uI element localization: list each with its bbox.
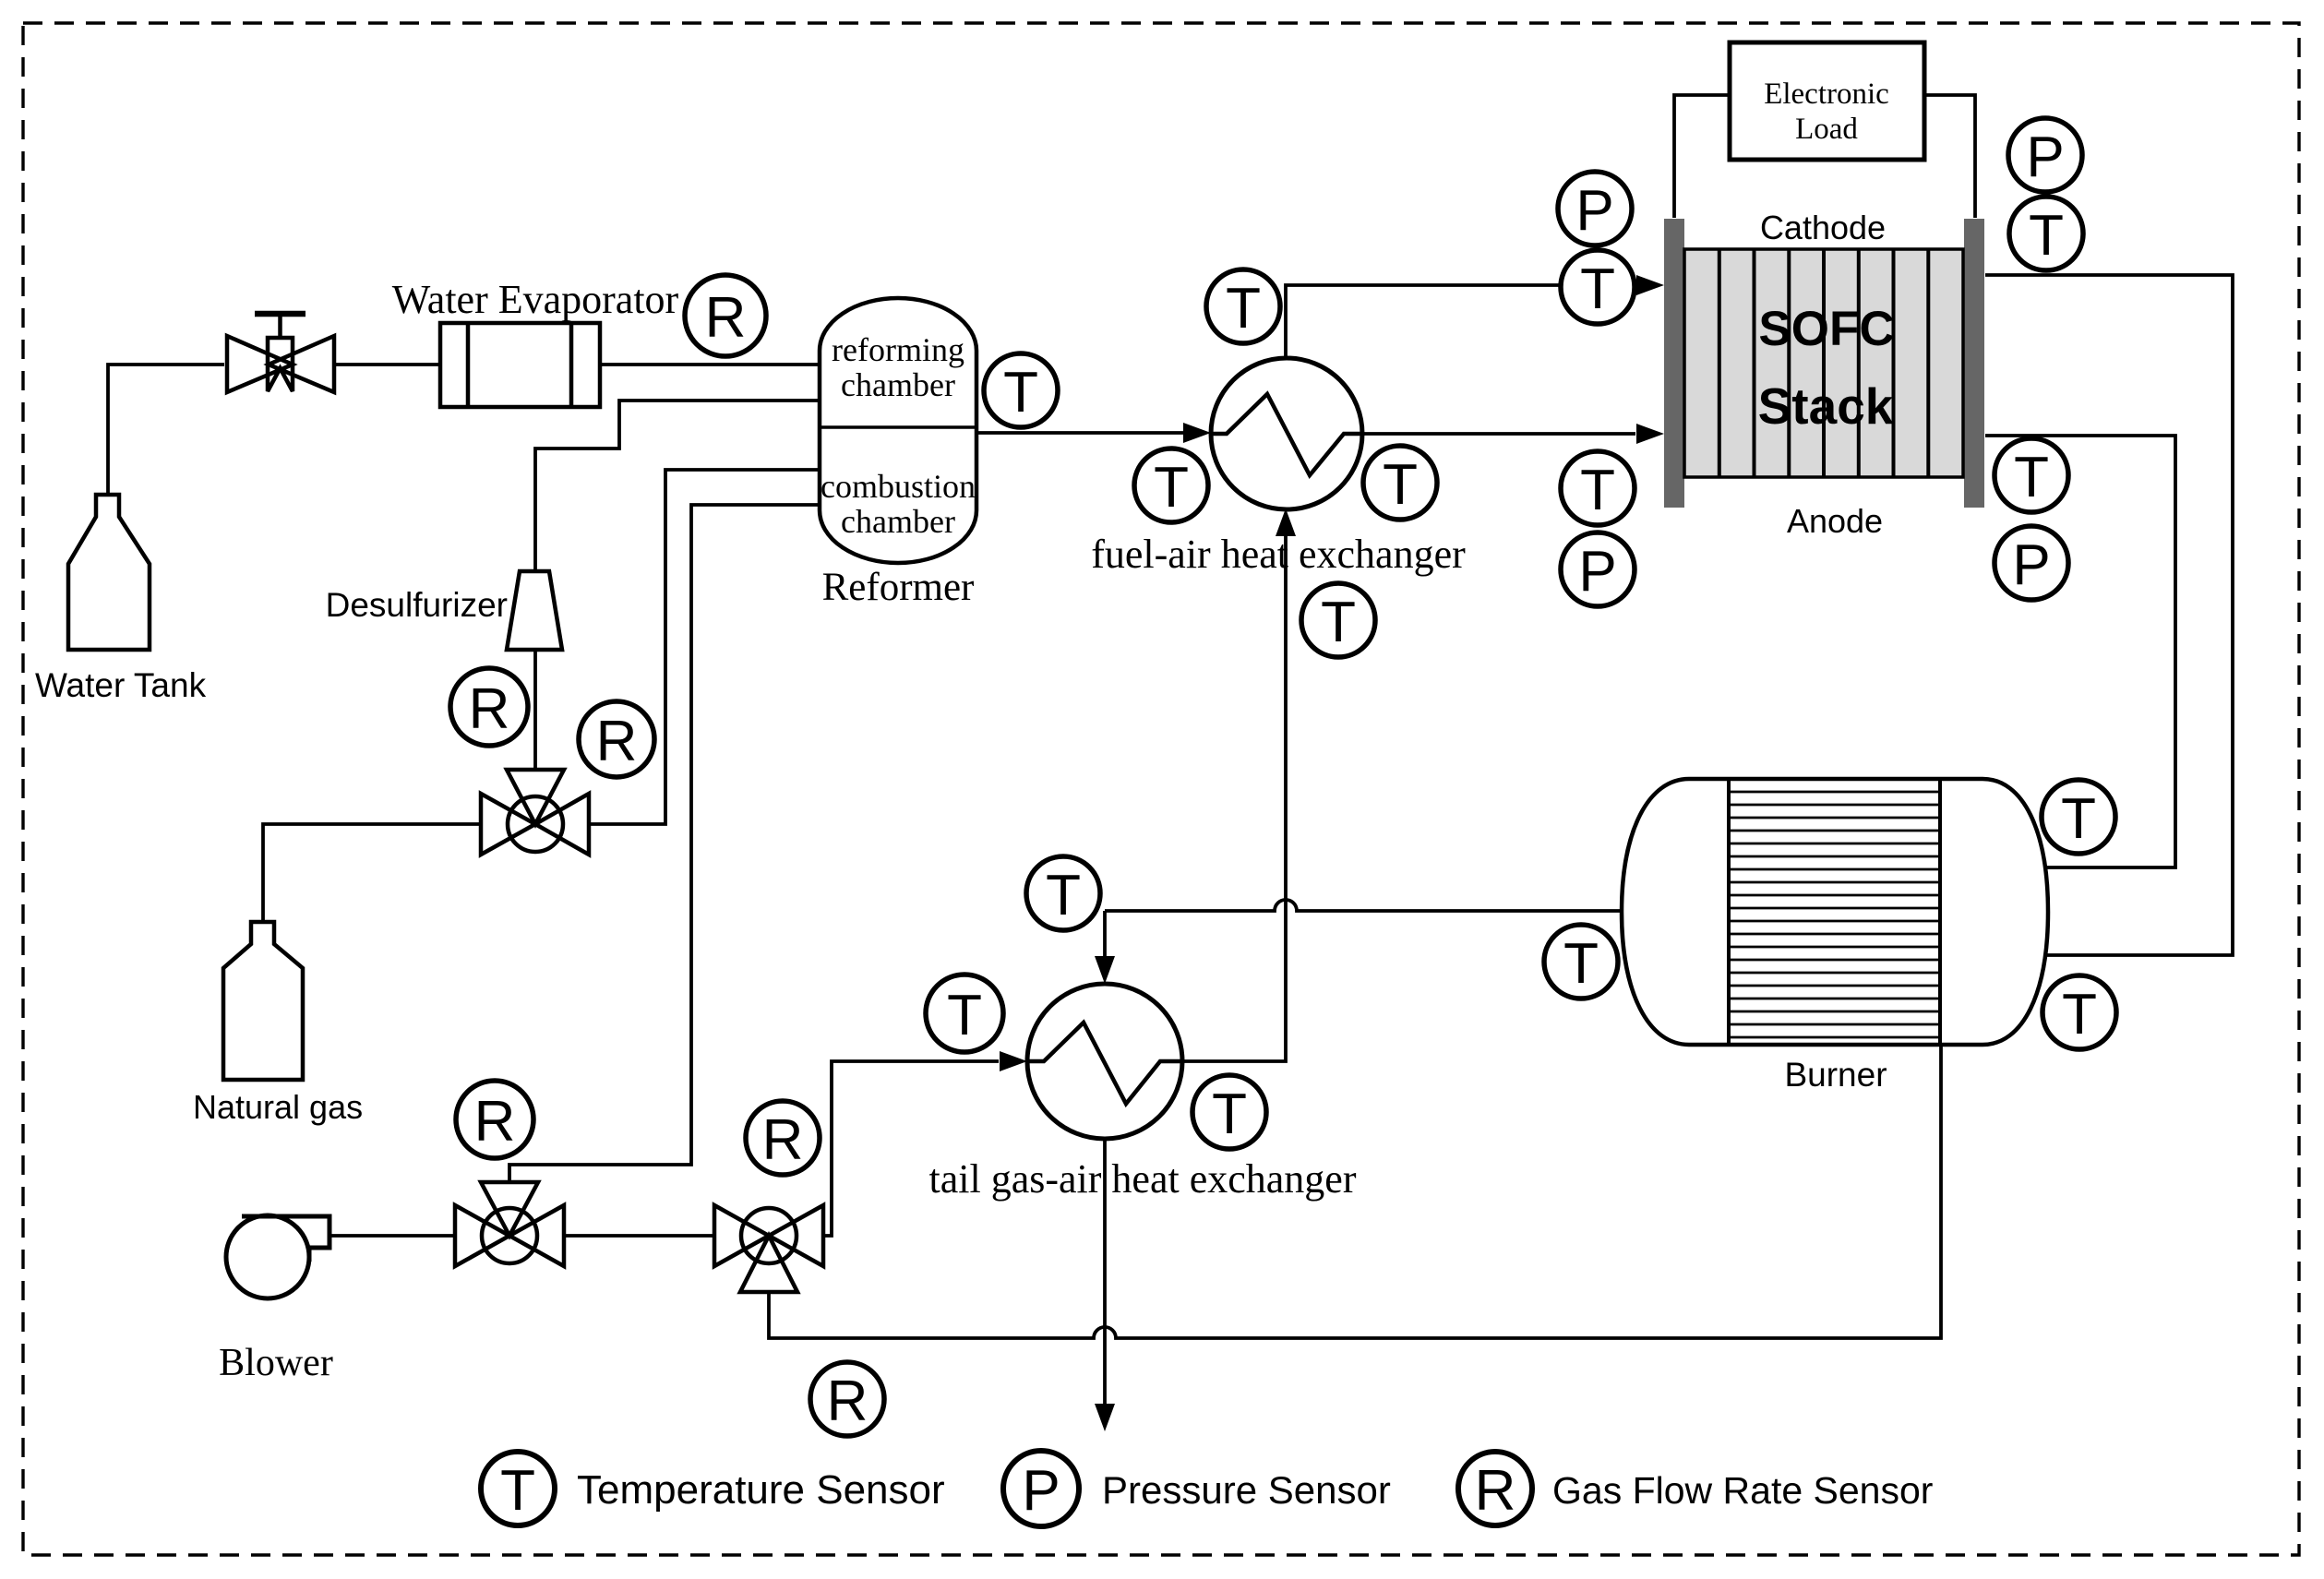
wire water tank to valve V1 — [108, 365, 224, 495]
svg-text:chamber: chamber — [841, 366, 955, 403]
arrow into SOFC cathode — [1636, 275, 1664, 295]
gas flow rate sensor R4 reforming air — [456, 1081, 533, 1158]
arrow up into fuel-air heat exchanger bottom — [1276, 508, 1296, 536]
temperature sensor T1 reformer outlet — [984, 353, 1058, 427]
temperature sensor T5 fuel-air HX air inlet — [1301, 583, 1375, 657]
wire tail gas-air heat exchanger exhaust outlet — [1103, 1139, 1107, 1404]
temperature sensor T12 tail-gas HX air outlet — [1192, 1075, 1266, 1149]
wire electronic load to SOFC left terminal — [1674, 95, 1730, 218]
wire blower to air valve V3 — [329, 1234, 455, 1238]
SOFC stack left terminal bar — [1664, 219, 1684, 508]
temperature sensor T13 burner outlet — [1544, 925, 1618, 999]
svg-text:T: T — [1212, 1083, 1247, 1146]
svg-text:R: R — [474, 1090, 516, 1154]
blower — [226, 1215, 329, 1298]
temperature sensor T14 burner anode-gas inlet — [2042, 780, 2115, 854]
svg-text:P: P — [2026, 126, 2064, 189]
burner tube bundle hatch — [1729, 792, 1940, 1037]
valve V3 air three-way valve — [455, 1182, 564, 1266]
svg-text:R: R — [596, 710, 638, 773]
wire water evaporator to reformer reforming chamber — [600, 363, 820, 366]
svg-text:T: T — [1226, 277, 1261, 341]
svg-text:T: T — [1580, 257, 1615, 321]
legend pressure sensor symbol — [1003, 1451, 1079, 1526]
svg-text:T: T — [1154, 456, 1189, 520]
reformer vessel — [820, 298, 976, 563]
wire NG valve V2 to desulfurizer — [533, 649, 537, 770]
pressure sensor P3 cathode outlet — [2008, 118, 2082, 192]
gas flow rate sensor R6 bypass air — [810, 1362, 884, 1436]
svg-text:Cathode: Cathode — [1760, 209, 1886, 246]
gas flow rate sensor R5 heat exchanger air — [746, 1101, 820, 1175]
svg-text:R: R — [1475, 1459, 1516, 1523]
svg-text:Temperature Sensor: Temperature Sensor — [577, 1467, 945, 1513]
svg-text:fuel-air heat exchanger: fuel-air heat exchanger — [1091, 532, 1466, 577]
svg-text:Blower: Blower — [219, 1342, 333, 1384]
temperature sensor T10 tail-gas HX hot inlet — [1026, 856, 1100, 930]
fuel-air heat exchanger — [1211, 358, 1362, 509]
svg-text:T: T — [2062, 983, 2097, 1047]
arrow into fuel-air heat exchanger left — [1183, 423, 1211, 443]
wire tail gas-air heat exchanger to fuel-air heat exchanger bottom — [1182, 536, 1286, 1061]
legend gas flow rate sensor symbol — [1458, 1452, 1532, 1525]
valve V1 water feed valve — [227, 314, 334, 392]
wire valve V1 to water evaporator — [334, 363, 440, 366]
legend temperature sensor symbol — [481, 1452, 555, 1525]
svg-text:T: T — [1046, 864, 1081, 927]
temperature sensor T7 anode inlet — [1561, 451, 1635, 525]
svg-text:T: T — [2061, 787, 2096, 851]
SOFC stack cell plates — [1719, 249, 1929, 477]
wire valve V4 bypass air to burner bottom (hops over exhaust line) — [769, 1046, 1941, 1338]
valve V2 natural gas three-way valve — [481, 770, 589, 855]
temperature sensor T6 cathode inlet — [1561, 250, 1635, 324]
temperature sensor T4 fuel-air HX fuel outlet — [1363, 446, 1437, 520]
wire SOFC anode outlet to burner — [1985, 436, 2175, 867]
svg-text:reforming: reforming — [832, 331, 964, 368]
burner vessel — [1622, 779, 2048, 1045]
wire fuel-air heat exchanger top to SOFC cathode inlet — [1286, 285, 1635, 359]
svg-text:T: T — [947, 984, 982, 1047]
svg-text:P: P — [1578, 540, 1616, 604]
wire reformer outlet to fuel-air heat exchanger — [976, 431, 1183, 435]
svg-text:chamber: chamber — [841, 503, 955, 540]
arrow down into tail gas-air heat exchanger top — [1095, 956, 1115, 984]
svg-text:P: P — [1575, 179, 1613, 243]
temperature sensor T3 fuel-air HX fuel inlet — [1134, 449, 1208, 522]
svg-text:R: R — [469, 677, 510, 741]
svg-text:Water Evaporator: Water Evaporator — [392, 277, 679, 322]
arrow exhaust outlet down — [1095, 1404, 1115, 1431]
svg-text:Stack: Stack — [1758, 377, 1894, 435]
arrow into SOFC anode — [1636, 424, 1664, 444]
wire valve V4 to tail gas-air heat exchanger (air side inlet) — [821, 1061, 999, 1236]
svg-text:Load: Load — [1795, 113, 1858, 146]
reformer chamber divider — [820, 425, 976, 429]
wire desulfurizer to reformer reforming chamber — [535, 401, 820, 572]
gas flow rate sensor R3 combustion gas — [579, 701, 654, 777]
tail gas-air heat exchanger — [1027, 984, 1182, 1139]
temperature sensor T9 anode outlet — [1995, 438, 2068, 512]
svg-text:T: T — [2014, 446, 2049, 509]
svg-text:Natural gas: Natural gas — [193, 1088, 363, 1126]
svg-text:Desulfurizer: Desulfurizer — [326, 586, 508, 624]
valve V4 tail-gas three-way valve — [714, 1205, 823, 1292]
svg-text:R: R — [827, 1370, 869, 1433]
pressure sensor P4 anode outlet — [1995, 526, 2068, 600]
svg-text:P: P — [2012, 533, 2050, 597]
wire air valve V3 to tail-gas valve V4 — [564, 1234, 714, 1238]
svg-text:Electronic: Electronic — [1764, 78, 1889, 111]
svg-text:Pressure Sensor: Pressure Sensor — [1102, 1468, 1391, 1512]
svg-text:T: T — [2029, 204, 2064, 268]
wire SOFC cathode outlet to burner — [1985, 275, 2233, 955]
temperature sensor T2 fuel-air HX air outlet — [1206, 269, 1280, 343]
svg-text:T: T — [1563, 932, 1599, 996]
svg-text:T: T — [500, 1459, 535, 1523]
svg-text:R: R — [705, 286, 747, 350]
svg-text:P: P — [1022, 1459, 1060, 1523]
wire fuel-air heat exchanger right to SOFC anode inlet — [1362, 432, 1635, 436]
gas flow rate sensor R1 water feed — [685, 275, 766, 356]
svg-text:Reformer: Reformer — [822, 566, 975, 609]
wire burner outlet to tail gas-air heat exchanger top (hops over air line) — [1105, 900, 1623, 956]
water evaporator — [440, 323, 600, 407]
temperature sensor T15 burner air inlet — [2042, 975, 2116, 1049]
svg-text:T: T — [1580, 459, 1615, 522]
water tank — [68, 495, 150, 650]
electronic load box — [1730, 42, 1924, 160]
temperature sensor T8 cathode outlet — [2009, 197, 2083, 270]
wire valve V2 to reformer combustion chamber — [589, 470, 820, 824]
temperature sensor T11 tail-gas HX air inlet — [926, 975, 1003, 1052]
wire air valve V3 to reformer combustion chamber — [509, 505, 820, 1183]
arrow into tail gas-air heat exchanger left — [1000, 1051, 1027, 1071]
svg-text:T: T — [1383, 453, 1418, 517]
svg-text:Burner: Burner — [1784, 1056, 1887, 1094]
SOFC stack body — [1684, 249, 1963, 477]
svg-text:Anode: Anode — [1787, 502, 1883, 540]
svg-text:Water Tank: Water Tank — [35, 666, 207, 704]
svg-text:combustion: combustion — [821, 468, 976, 505]
gas flow rate sensor R2 desulfurized gas — [450, 668, 528, 746]
svg-text:T: T — [1003, 361, 1038, 425]
svg-text:tail gas-air heat exchanger: tail gas-air heat exchanger — [929, 1156, 1357, 1202]
SOFC stack right terminal bar — [1964, 219, 1984, 508]
pressure sensor P2 anode inlet — [1561, 532, 1635, 606]
svg-text:Gas Flow Rate Sensor: Gas Flow Rate Sensor — [1552, 1469, 1933, 1512]
desulfurizer — [507, 571, 562, 650]
burner tube bundle boundary lines — [1729, 779, 1940, 1045]
wire electronic load to SOFC right terminal — [1923, 95, 1975, 218]
pressure sensor P1 cathode inlet — [1558, 172, 1632, 245]
natural gas bottle — [223, 922, 303, 1080]
wire natural gas bottle to valve V2 — [263, 824, 481, 922]
svg-text:T: T — [1321, 591, 1356, 654]
svg-text:R: R — [762, 1108, 804, 1172]
svg-text:SOFC: SOFC — [1758, 302, 1894, 356]
